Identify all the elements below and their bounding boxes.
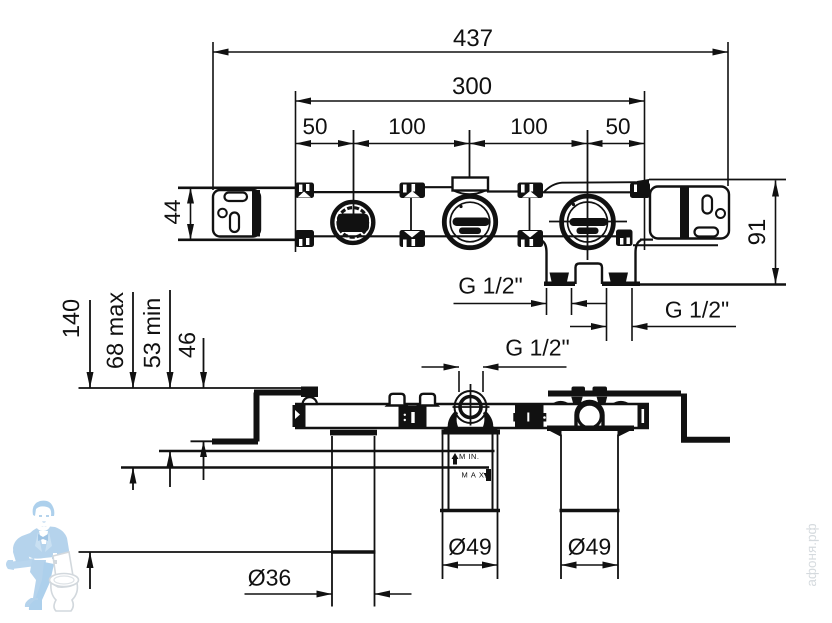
68max level line (121, 466, 489, 468)
right bracket horizontal slot (695, 228, 719, 237)
back plate edge line (544, 179, 786, 196)
mid cylinder flange (442, 430, 501, 435)
MIN label (460, 454, 479, 459)
dim 68max vertical line (130, 292, 137, 490)
G 1/2 dim B label (666, 301, 728, 318)
bump B3 (418, 394, 437, 406)
mid cylinder walls (443, 435, 498, 580)
shoe right (29, 600, 42, 610)
rail top edge mid3 (487, 190, 519, 192)
toilet tank (53, 552, 73, 578)
right cylinder cap (560, 509, 620, 513)
right bracket thick bar (680, 187, 689, 239)
trousers legs (30, 560, 46, 598)
dim 68max label (107, 292, 124, 368)
hair (33, 501, 55, 516)
dim D36 (245, 591, 412, 598)
dim 91 label (748, 220, 765, 244)
left bracket vertical slot (230, 213, 239, 233)
clamp pair 2 (400, 183, 426, 248)
flush handle (54, 560, 57, 564)
left bracket thick bar (252, 190, 260, 237)
left Z bracket (191, 393, 311, 442)
port2 body (444, 196, 495, 247)
bump B1 (303, 397, 318, 404)
G 1/2 dim A (454, 300, 607, 307)
bottom rail right end block (638, 405, 650, 427)
wrench (9, 558, 36, 569)
left arm to wrench (13, 537, 30, 562)
MAX label (462, 472, 486, 477)
right valve nut bases (571, 397, 607, 405)
dim D36 label (249, 569, 291, 586)
back plate bottom edge (633, 244, 718, 246)
port3 body (562, 196, 614, 248)
right arm resting on tank (52, 540, 65, 560)
right valve nuts above arm (572, 387, 608, 394)
left bracket plate (213, 190, 260, 237)
watermark site text (806, 524, 819, 586)
left tube walls (332, 436, 375, 607)
dim D49 left (443, 562, 498, 569)
dim 46 vertical line (200, 338, 207, 480)
left tube cap (331, 550, 376, 554)
right cylinder flange (547, 426, 634, 432)
dim 50 left label (303, 118, 326, 134)
dim D49 left label (449, 538, 491, 555)
dim D49 right (561, 562, 618, 569)
dim 44 line (187, 188, 194, 241)
base under port3 (541, 240, 641, 284)
bump B5 (611, 401, 630, 405)
dim 100 left label (390, 118, 425, 134)
head (34, 503, 52, 531)
bow tie (38, 534, 48, 541)
53min level line (159, 450, 495, 452)
clamp pair 1 (295, 183, 314, 248)
clamp pair 3 (518, 183, 544, 248)
toilet seat (50, 574, 79, 587)
rail bottom edge joint (640, 239, 653, 241)
valve block between B2 B3 (399, 406, 427, 428)
hand cuff (53, 553, 57, 558)
rail top edge mid2 (400, 186, 454, 188)
right valve flange wedges (548, 430, 632, 437)
shirt (39, 531, 48, 544)
dim 44 label (165, 200, 180, 224)
toilet bowl (51, 583, 78, 611)
jacket body (13, 526, 69, 564)
G 1/2 dim C extension lines (458, 371, 460, 392)
bottom rail bottom edge (295, 427, 649, 429)
dim 100 right label (512, 118, 547, 134)
dim 300 right extension line (644, 91, 646, 250)
port3 centerline (587, 130, 589, 260)
middle valve collar (444, 411, 497, 430)
G 1/2 dim B extension lines (606, 288, 608, 341)
feet bottom line extended (91 bottom extension) (640, 283, 786, 286)
G 1/2 dim C label (506, 339, 568, 356)
dim 437 line (213, 49, 728, 56)
dim D49 right label (569, 538, 611, 555)
port2 centerline (469, 130, 471, 178)
MAX marker (484, 469, 492, 481)
dim 437 left extension line (212, 42, 214, 190)
dim 140 vertical line (87, 300, 94, 589)
MIN marker (452, 453, 459, 465)
G 1/2 dim A label (459, 277, 521, 294)
dim 300 label (453, 77, 491, 94)
left tube flange (330, 430, 377, 436)
left bracket horizontal slot (225, 193, 248, 202)
clamp pair 4 (616, 183, 650, 247)
mid cylinder cap (440, 509, 500, 513)
G 1/2 dim A extension lines (546, 288, 548, 315)
dim 300 line (296, 98, 645, 105)
bump B4 (551, 401, 570, 405)
dim 300 left extension line (295, 91, 297, 252)
rail top edge left (178, 187, 299, 190)
port2 clip arc (454, 191, 486, 195)
right bracket vertical slot (703, 196, 713, 214)
port2 tab (453, 178, 489, 191)
G 1/2 dim C (422, 364, 567, 371)
port1 body (332, 202, 373, 243)
dim 53min vertical line (167, 290, 174, 487)
dim 50 right label (606, 118, 629, 134)
rail bottom edge mid (297, 235, 618, 237)
bottom rail left end block (293, 387, 319, 428)
middle valve port (453, 384, 490, 426)
dim 53min label (143, 299, 160, 367)
right cylinder walls (561, 435, 618, 580)
rail bottom edge left (178, 239, 299, 242)
right valve dome (576, 402, 603, 429)
bottom clamp block (513, 405, 546, 427)
G 1/2 dim B (570, 323, 736, 330)
dim 437 label (454, 29, 492, 46)
right bracket plate (650, 187, 729, 239)
watermark plumber logo (6, 501, 79, 611)
dim 91 line (772, 181, 779, 285)
right bracket hole (716, 209, 725, 218)
right Z bracket (548, 394, 730, 440)
wall reference line (79, 387, 303, 389)
dim 437 right extension line (727, 42, 729, 186)
shoe left (25, 598, 38, 607)
lapel lines (35, 532, 42, 552)
bump B2 (388, 394, 407, 406)
dim 46 label (179, 333, 196, 358)
face features (39, 515, 42, 517)
bottom rail top edge (295, 403, 649, 405)
rail top edge right (541, 191, 651, 193)
port1 centerline (353, 130, 355, 216)
port3 horizontal crosshair (549, 221, 627, 223)
dim 50-100-100-50 line (296, 140, 645, 147)
dim 140 label (63, 300, 80, 337)
rail top edge mid (297, 191, 402, 193)
left bracket hole (218, 209, 227, 218)
bottom reference line (79, 551, 333, 553)
